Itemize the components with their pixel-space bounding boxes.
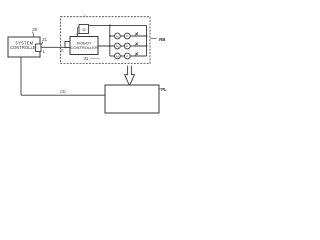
svg-text:CONTROLLER: CONTROLLER <box>71 45 98 50</box>
svg-text:RB: RB <box>159 37 165 42</box>
label 31 under robot controller <box>84 56 100 61</box>
svg-text:CONTROLLER: CONTROLLER <box>10 45 39 50</box>
shaft tick row 2 <box>135 42 138 45</box>
label 20 <box>32 27 37 37</box>
wire top feed from teach box to motor bus <box>89 24 147 26</box>
svg-text:P: P <box>126 34 128 38</box>
box U10 ROBOT CONTROLLER <box>70 37 98 55</box>
connector box 11 on left edge of robot controller <box>65 42 70 48</box>
motor M2 <box>115 43 121 49</box>
wire servo row 3 <box>110 55 147 57</box>
svg-text:32: 32 <box>82 28 86 32</box>
label 21 <box>41 37 47 44</box>
svg-text:PL: PL <box>161 87 167 92</box>
svg-text:L: L <box>43 49 46 54</box>
wire L between controllers <box>41 46 65 48</box>
dashed enclosure RB (robot body) <box>61 17 151 64</box>
motor M1 <box>115 33 121 39</box>
wire right bus <box>146 25 148 56</box>
teach box 12 above robot controller <box>79 25 89 34</box>
svg-text:11: 11 <box>60 48 64 52</box>
junction dots <box>109 25 148 47</box>
svg-text:31: 31 <box>84 56 89 61</box>
encoder P2 <box>124 43 130 49</box>
connector box 21 on right edge of system controller <box>36 44 41 51</box>
shaft tick row 3 <box>135 52 138 55</box>
wire servo row 1 <box>110 35 147 37</box>
encoder P3 <box>124 53 130 59</box>
svg-text:20: 20 <box>32 27 37 32</box>
box U20 SYSTEM CONTROLLER <box>8 37 40 57</box>
label PL <box>159 87 167 92</box>
wire servo row 2 (feed from robot controller) <box>98 45 147 47</box>
svg-text:P: P <box>126 44 128 48</box>
motor M3 <box>115 53 121 59</box>
hollow arrow from robot body to pallet <box>125 66 135 86</box>
cable Cb from system controller to pallet station <box>21 57 105 95</box>
encoder P1 <box>124 33 130 39</box>
box PL pallet <box>105 85 159 113</box>
svg-text:Cb: Cb <box>60 89 66 94</box>
svg-text:12: 12 <box>82 14 86 18</box>
label RB <box>150 37 165 42</box>
wire left bus <box>109 25 111 56</box>
arrow from teach box into robot controller <box>76 27 79 36</box>
svg-text:21: 21 <box>42 37 47 42</box>
svg-text:P: P <box>126 54 128 58</box>
shaft tick row 1 <box>135 32 138 35</box>
